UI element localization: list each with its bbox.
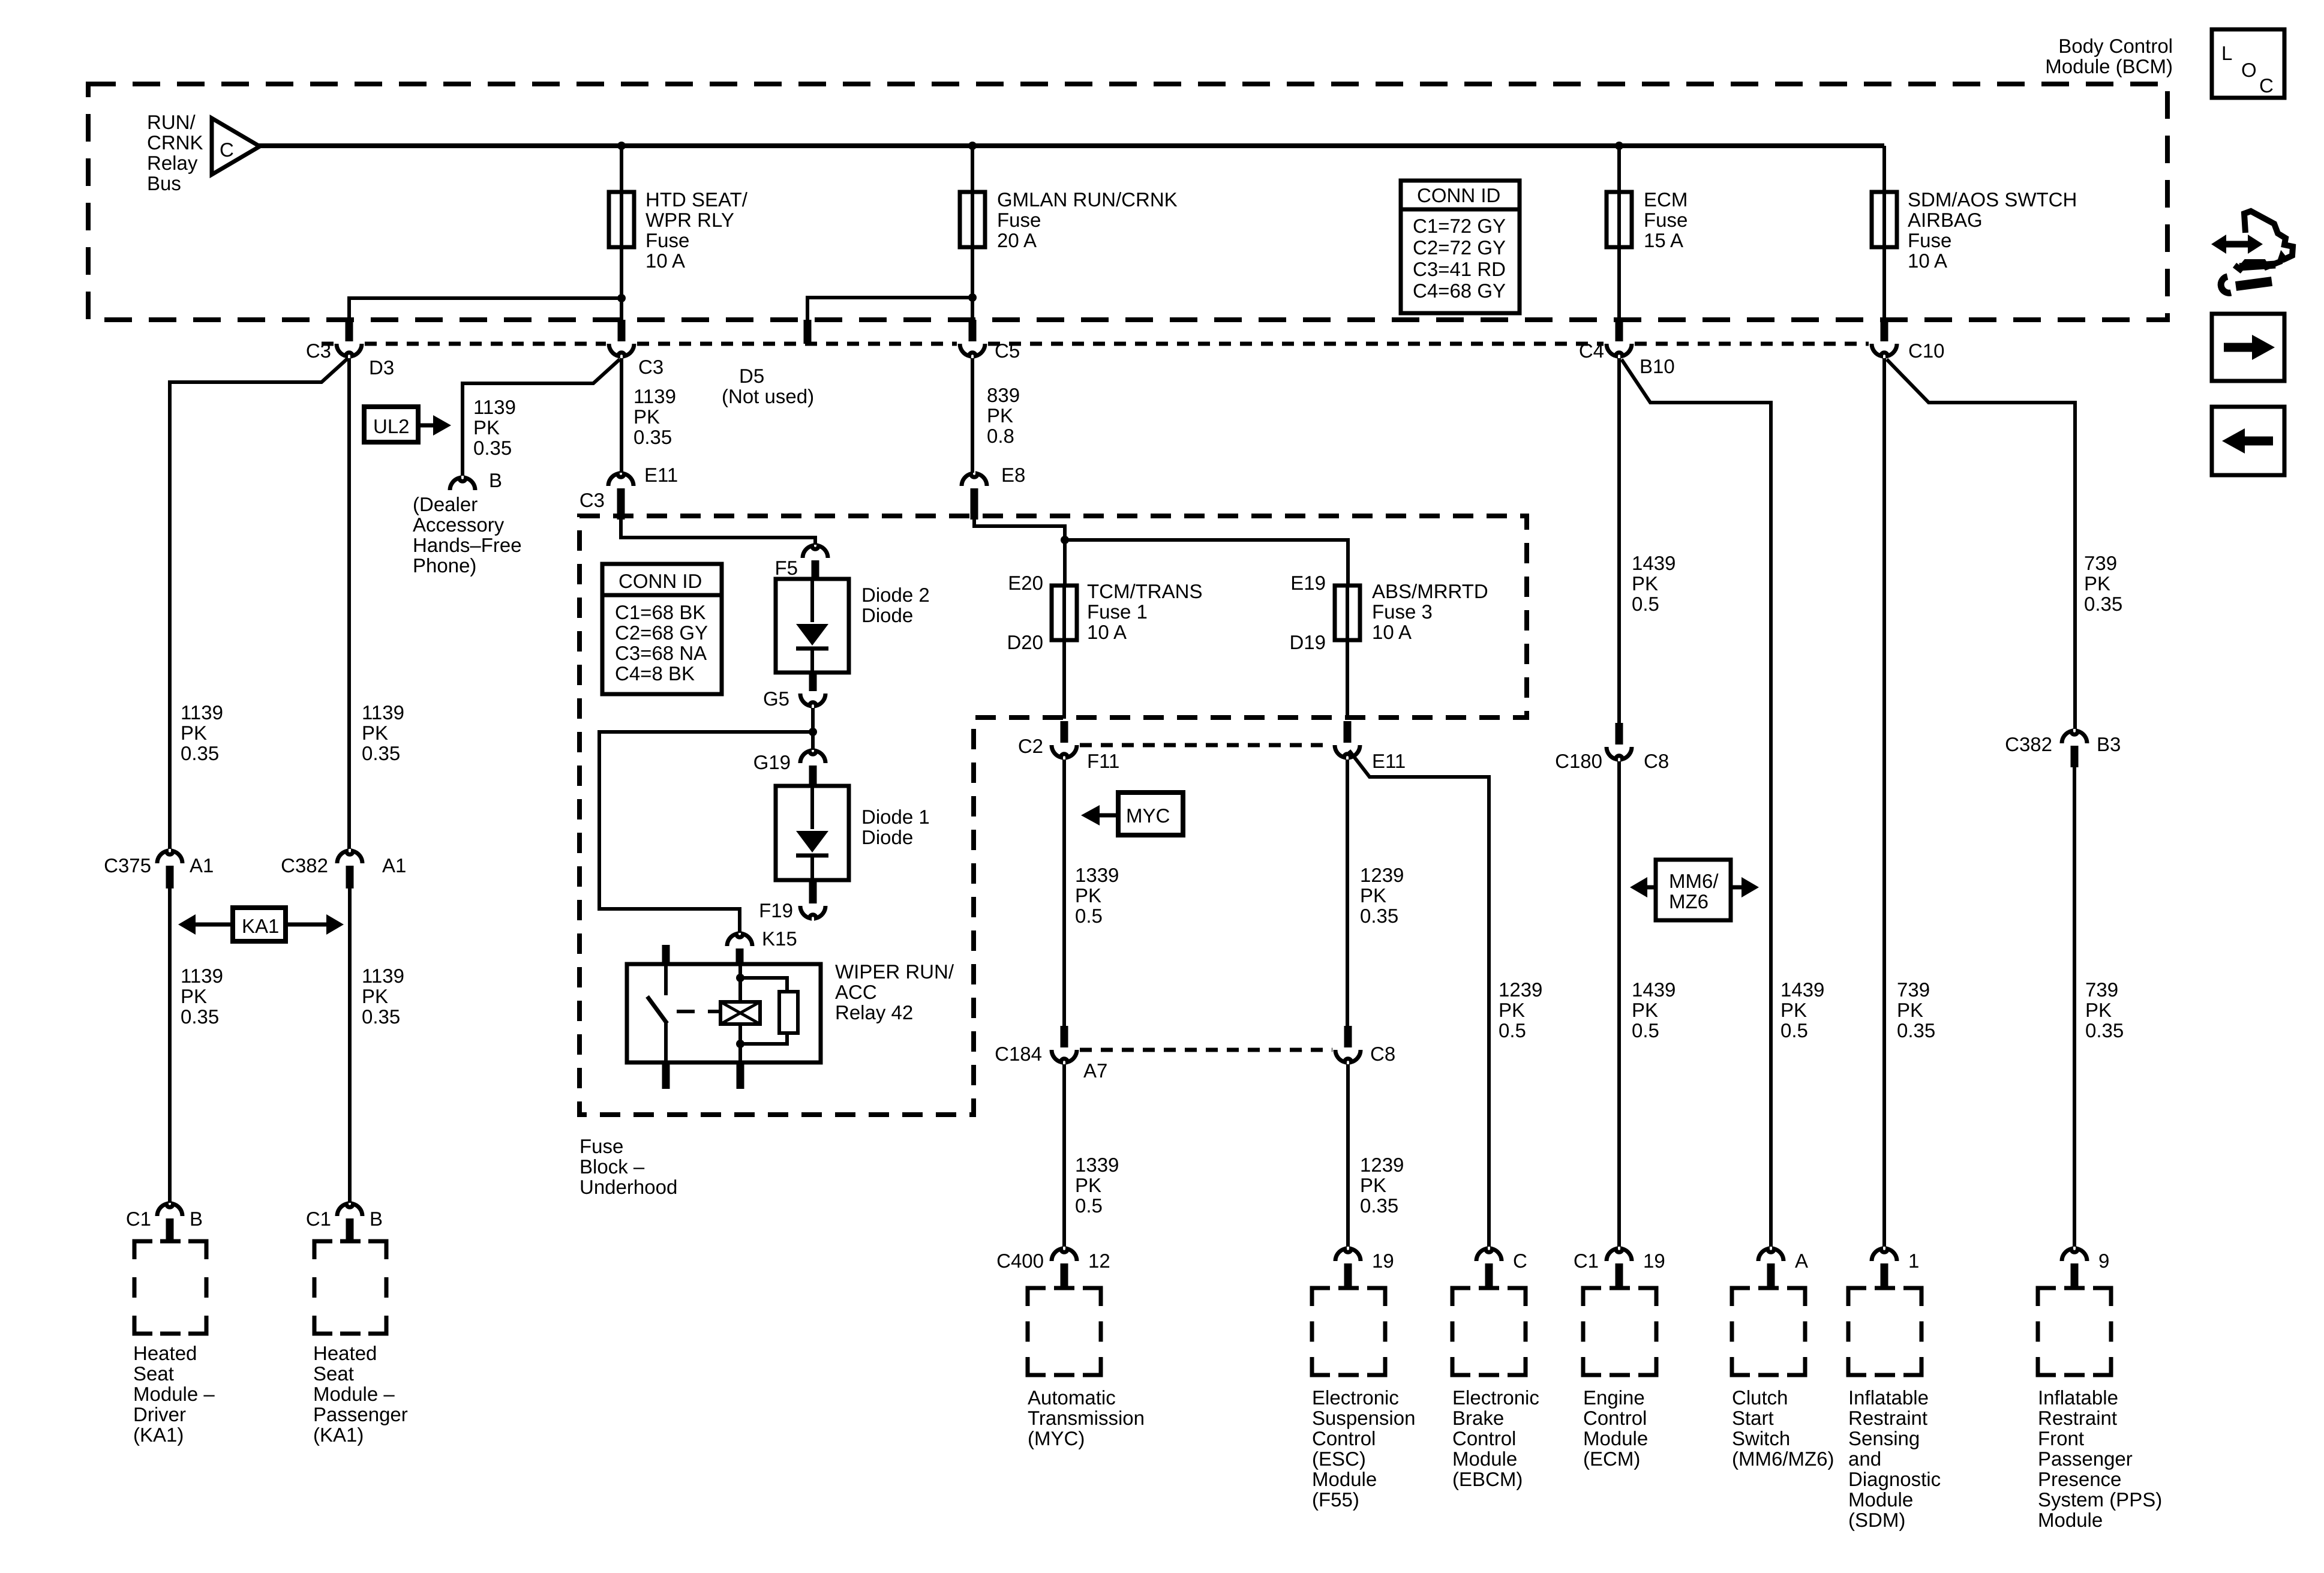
connector C180/C8 pin tick bbox=[1616, 723, 1623, 745]
svg-text:C2=72 GY: C2=72 GY bbox=[1413, 236, 1506, 259]
connector C2/F11 pin tick bbox=[1061, 721, 1068, 743]
label Automatic Transmission bbox=[1028, 1386, 1145, 1449]
label circuit 1139 PK 0.35 (UL2 branch) bbox=[473, 396, 516, 459]
connector C375/A1 pin tick bbox=[166, 866, 174, 888]
relay switch pin stub bottom bbox=[662, 1062, 670, 1089]
svg-text:AIRBAG: AIRBAG bbox=[1908, 209, 1983, 231]
svg-text:Body Control: Body Control bbox=[2058, 35, 2173, 57]
wire coil bottom junction bbox=[738, 1024, 742, 1062]
wire C375/A1 to heated seat driver bbox=[168, 881, 172, 1203]
label ECM Fuse 15 A bbox=[1644, 188, 1688, 251]
connector G19 pin tick bbox=[809, 766, 817, 787]
junction node on bus at ECM fuse bbox=[1615, 142, 1623, 150]
svg-text:WPR RLY: WPR RLY bbox=[645, 209, 734, 231]
label GMLAN RUN/CRNK Fuse 20 A bbox=[997, 188, 1178, 251]
svg-text:B10: B10 bbox=[1640, 355, 1675, 377]
svg-text:C8: C8 bbox=[1644, 750, 1669, 772]
svg-text:1139: 1139 bbox=[633, 385, 676, 407]
svg-text:C3=41 RD: C3=41 RD bbox=[1413, 258, 1506, 280]
svg-text:0.35: 0.35 bbox=[633, 426, 672, 448]
svg-text:(ESC): (ESC) bbox=[1312, 1448, 1366, 1470]
connector K15 socket bbox=[727, 934, 752, 946]
svg-text:PK: PK bbox=[362, 722, 388, 744]
svg-text:739: 739 bbox=[2085, 978, 2118, 1001]
svg-text:KA1: KA1 bbox=[242, 915, 279, 937]
connector C382/B3 pin tick bbox=[2071, 746, 2079, 767]
svg-text:Module: Module bbox=[2038, 1509, 2103, 1531]
svg-text:Driver: Driver bbox=[133, 1403, 186, 1425]
label C8 (ESC) bbox=[1370, 1043, 1395, 1065]
svg-text:TCM/TRANS: TCM/TRANS bbox=[1087, 580, 1203, 602]
connector interface dotted line (C3/D5/C5/C4/C10 row) bbox=[322, 342, 1869, 346]
svg-text:C8: C8 bbox=[1370, 1043, 1395, 1065]
diode box Diode 1 bbox=[776, 786, 849, 880]
svg-text:0.35: 0.35 bbox=[362, 1005, 400, 1028]
svg-text:Suspension: Suspension bbox=[1312, 1407, 1415, 1429]
svg-text:CONN ID: CONN ID bbox=[1417, 184, 1500, 206]
svg-text:0.5: 0.5 bbox=[1780, 1019, 1808, 1041]
wire ECM fuse to connector C4 bbox=[1617, 247, 1621, 322]
svg-text:Fuse: Fuse bbox=[1908, 229, 1951, 251]
svg-text:D20: D20 bbox=[1007, 631, 1043, 653]
connector G5 socket bbox=[800, 694, 825, 706]
LOC legend box bbox=[2212, 29, 2284, 98]
svg-text:C: C bbox=[2259, 74, 2274, 97]
svg-text:1239: 1239 bbox=[1499, 978, 1542, 1001]
svg-text:Fuse: Fuse bbox=[645, 229, 689, 251]
module box ESC module bbox=[1312, 1288, 1385, 1375]
wire C10 to SDM bbox=[1882, 358, 1886, 1247]
svg-text:E8: E8 bbox=[1001, 464, 1025, 486]
wire bus to HTD SEAT fuse bbox=[620, 146, 623, 193]
svg-text:Clutch: Clutch bbox=[1732, 1386, 1788, 1409]
label EBCM bbox=[1452, 1386, 1539, 1490]
fuse ABS/MRRTD Fuse 3 10A bbox=[1335, 586, 1360, 640]
svg-text:Passenger: Passenger bbox=[313, 1403, 408, 1425]
wire C382/B3 to PPS module bbox=[2073, 761, 2076, 1247]
svg-text:Diagnostic: Diagnostic bbox=[1848, 1468, 1941, 1490]
svg-text:Fuse: Fuse bbox=[997, 209, 1041, 231]
svg-text:UL2: UL2 bbox=[373, 415, 410, 437]
svg-text:C4: C4 bbox=[1579, 340, 1604, 362]
label (Dealer Accessory Hands-Free Phone) bbox=[413, 493, 522, 577]
label A1 (passenger) bbox=[382, 854, 406, 876]
svg-text:SDM/AOS SWTCH: SDM/AOS SWTCH bbox=[1908, 188, 2077, 211]
wire C8 to ESC module bbox=[1346, 1064, 1350, 1247]
label circuit 839 PK 0.8 bbox=[987, 384, 1020, 447]
label circuit 1339 PK 0.5 (lower) bbox=[1075, 1154, 1119, 1217]
connector socket at EBCM bbox=[1476, 1249, 1502, 1261]
label ABS/MRRTD Fuse 3 10 A bbox=[1372, 580, 1488, 643]
label D20 bbox=[1007, 631, 1043, 653]
svg-text:PK: PK bbox=[1075, 1174, 1101, 1196]
connector C1/B driver socket bbox=[157, 1204, 182, 1216]
label E8 bbox=[1001, 464, 1025, 486]
harness MM6/MZ6 label box bbox=[1656, 860, 1731, 920]
label Fuse Block - Underhood bbox=[580, 1135, 677, 1198]
svg-text:Module: Module bbox=[1848, 1488, 1913, 1511]
svg-text:C2=68 GY: C2=68 GY bbox=[615, 622, 708, 644]
svg-text:System (PPS): System (PPS) bbox=[2038, 1488, 2162, 1511]
svg-text:0.5: 0.5 bbox=[1075, 1194, 1103, 1217]
junction node HTD branch bbox=[617, 294, 626, 302]
wire C4 to C180 bbox=[1617, 358, 1621, 729]
svg-text:ACC: ACC bbox=[835, 981, 877, 1003]
svg-text:C: C bbox=[1513, 1250, 1527, 1272]
label circuit 1139 PK 0.35 (C3-E11) bbox=[633, 385, 676, 448]
svg-text:C180: C180 bbox=[1555, 750, 1602, 772]
harness KA1 double arrow bbox=[178, 914, 344, 935]
connector pin tick at EBCM bbox=[1485, 1263, 1493, 1289]
label C400 bbox=[996, 1250, 1044, 1272]
label C382 (PPS) bbox=[2005, 733, 2052, 755]
svg-text:Presence: Presence bbox=[2038, 1468, 2121, 1490]
svg-text:CRNK: CRNK bbox=[147, 131, 203, 154]
label HTD SEAT/WPR RLY Fuse 10 A bbox=[645, 188, 748, 272]
svg-text:(KA1): (KA1) bbox=[133, 1424, 184, 1446]
label Body Control Module (BCM) bbox=[2045, 35, 2173, 77]
svg-text:Fuse 1: Fuse 1 bbox=[1087, 601, 1148, 623]
svg-text:0.35: 0.35 bbox=[1360, 1194, 1398, 1217]
UL2 arrow bbox=[417, 415, 451, 436]
svg-text:E20: E20 bbox=[1008, 572, 1043, 594]
svg-text:C: C bbox=[220, 139, 234, 161]
wire ABS fuse to E11 bbox=[1346, 640, 1349, 719]
relay switch pin stub top bbox=[662, 945, 670, 966]
connector C382/A1 socket bbox=[337, 851, 362, 863]
label circuit 1139 PK 0.35 (passenger lower) bbox=[362, 965, 404, 1028]
svg-text:0.35: 0.35 bbox=[181, 1005, 219, 1028]
svg-text:MM6/: MM6/ bbox=[1669, 870, 1719, 892]
svg-text:C1: C1 bbox=[306, 1208, 331, 1230]
label pin 1 (SDM) bbox=[1908, 1250, 1919, 1272]
bus source triangle C bbox=[212, 118, 260, 175]
wire TCM fuse to C2/F11 bbox=[1062, 640, 1066, 719]
svg-text:Heated: Heated bbox=[133, 1342, 197, 1364]
connector C1/B driver pin tick bbox=[166, 1218, 174, 1242]
label F5 bbox=[774, 557, 798, 579]
label TCM/TRANS Fuse 1 10 A bbox=[1087, 580, 1203, 643]
label B3 bbox=[2097, 733, 2121, 755]
svg-text:Passenger: Passenger bbox=[2038, 1448, 2133, 1470]
svg-text:20 A: 20 A bbox=[997, 229, 1037, 251]
svg-text:(MYC): (MYC) bbox=[1028, 1427, 1085, 1449]
module box PPS module bbox=[2038, 1288, 2111, 1375]
connector C382/B3 socket bbox=[2062, 731, 2087, 743]
connector C5 socket bbox=[960, 344, 985, 356]
label circuit 739 PK 0.35 (PPS lower) bbox=[2085, 978, 2124, 1041]
wire HTD SEAT fuse to connector C3 bbox=[620, 247, 623, 322]
svg-text:15 A: 15 A bbox=[1644, 229, 1683, 251]
svg-text:C4=68 GY: C4=68 GY bbox=[1413, 280, 1506, 302]
connector C184/A7 pin tick bbox=[1061, 1026, 1068, 1047]
svg-text:F11: F11 bbox=[1087, 750, 1119, 772]
label C1 bbox=[1574, 1250, 1599, 1272]
label circuit 1439 PK 0.5 (upper) bbox=[1632, 552, 1676, 615]
label C10 bbox=[1908, 340, 1945, 362]
svg-text:L: L bbox=[2221, 42, 2232, 64]
label Heated Seat Module - Driver (KA1) bbox=[133, 1342, 215, 1446]
label B10 bbox=[1640, 355, 1675, 377]
svg-text:(EBCM): (EBCM) bbox=[1452, 1468, 1523, 1490]
svg-text:9: 9 bbox=[2098, 1250, 2109, 1272]
svg-text:1439: 1439 bbox=[1632, 552, 1676, 574]
label circuit 1239 PK 0.5 (EBCM) bbox=[1499, 978, 1542, 1041]
relay coil pin stub bottom bbox=[737, 1062, 744, 1089]
wire E8 to underhood fuses bbox=[974, 518, 1065, 586]
svg-text:PK: PK bbox=[1360, 884, 1386, 906]
connector C1/B passenger pin tick bbox=[346, 1218, 354, 1242]
svg-text:Relay: Relay bbox=[147, 152, 198, 174]
svg-text:F5: F5 bbox=[774, 557, 798, 579]
label F11 bbox=[1087, 750, 1119, 772]
svg-text:MZ6: MZ6 bbox=[1669, 890, 1709, 912]
connector C184/A7 socket bbox=[1052, 1050, 1077, 1062]
svg-text:Sensing: Sensing bbox=[1848, 1427, 1920, 1449]
svg-text:C5: C5 bbox=[995, 340, 1020, 362]
svg-text:1139: 1139 bbox=[181, 701, 223, 724]
junction node relay branch bbox=[809, 728, 817, 736]
svg-text:10 A: 10 A bbox=[645, 250, 685, 272]
connector F5 socket bbox=[803, 546, 828, 558]
label ECM bbox=[1583, 1386, 1648, 1470]
svg-text:C10: C10 bbox=[1908, 340, 1945, 362]
label SDM/AOS SWTCH AIRBAG Fuse 10 A bbox=[1908, 188, 2077, 272]
svg-text:PK: PK bbox=[633, 406, 660, 428]
connector E8 socket bbox=[962, 474, 987, 486]
connector C5 pin tick bbox=[969, 320, 977, 341]
wire C4 branch to clutch start switch bbox=[1622, 359, 1771, 1247]
svg-text:0.5: 0.5 bbox=[1632, 593, 1659, 615]
svg-text:Control: Control bbox=[1452, 1427, 1516, 1449]
svg-text:PK: PK bbox=[2085, 999, 2112, 1021]
CONN ID table (fuse block connectors) bbox=[602, 564, 722, 694]
svg-text:Relay 42: Relay 42 bbox=[835, 1001, 913, 1023]
wire C3/D3 to driver seat column bbox=[170, 359, 347, 849]
junction node on bus at HTD SEAT fuse bbox=[617, 142, 626, 150]
wire branch to D5 bbox=[807, 298, 972, 322]
label pin 19 (ECM) bbox=[1643, 1250, 1665, 1272]
junction node coil bottom bbox=[736, 1040, 744, 1048]
svg-text:PK: PK bbox=[2084, 572, 2110, 595]
connector pin tick at ESC module bbox=[1344, 1263, 1352, 1289]
connector C3 (HTD SEAT) pin tick bbox=[618, 320, 626, 341]
label pin 19 (ESC module) bbox=[1372, 1250, 1394, 1272]
wire bus to SDM/AOS fuse bbox=[1882, 146, 1886, 193]
svg-text:Module: Module bbox=[1583, 1427, 1648, 1449]
connector socket at ECM bbox=[1607, 1249, 1632, 1261]
svg-text:PK: PK bbox=[362, 985, 388, 1007]
label A1 (driver) bbox=[190, 854, 214, 876]
UL2 label box bbox=[364, 407, 418, 442]
back-arrow navigation box bbox=[2212, 407, 2284, 475]
relay switch lower contact bbox=[664, 1023, 668, 1062]
connector E11 (EBCM row) pin tick bbox=[1344, 721, 1352, 743]
connector E11 (EBCM row) socket bbox=[1335, 745, 1360, 757]
connector C3/D3 pin tick bbox=[346, 320, 353, 341]
label A7 bbox=[1083, 1059, 1107, 1082]
connector G5 pin tick bbox=[809, 673, 817, 691]
wire E11 to C8 bbox=[1346, 760, 1349, 1032]
connector C4 pin tick bbox=[1616, 320, 1623, 341]
svg-text:Diode: Diode bbox=[861, 604, 913, 626]
svg-text:B: B bbox=[370, 1208, 383, 1230]
label circuit 1139 PK 0.35 (passenger upper) bbox=[362, 701, 404, 764]
relay switch blade bbox=[647, 996, 667, 1023]
svg-text:10 A: 10 A bbox=[1372, 621, 1412, 643]
svg-text:1139: 1139 bbox=[181, 965, 223, 987]
svg-text:WIPER RUN/: WIPER RUN/ bbox=[835, 960, 954, 983]
connector C3/E11 pin tick bbox=[617, 488, 625, 520]
svg-text:0.35: 0.35 bbox=[181, 742, 219, 764]
connector D5 pin tick (not used) bbox=[804, 320, 812, 344]
svg-text:B: B bbox=[489, 469, 502, 491]
svg-text:Fuse: Fuse bbox=[1644, 209, 1688, 231]
svg-text:0.35: 0.35 bbox=[362, 742, 400, 764]
svg-text:PK: PK bbox=[1075, 884, 1101, 906]
svg-text:F19: F19 bbox=[759, 899, 793, 921]
svg-text:D19: D19 bbox=[1289, 631, 1326, 653]
label C1 (driver) bbox=[126, 1208, 151, 1230]
svg-text:0.35: 0.35 bbox=[1360, 905, 1398, 927]
svg-text:Control: Control bbox=[1583, 1407, 1647, 1429]
harness MM6/MZ6 double arrow bbox=[1630, 877, 1759, 897]
fuse ECM 15A bbox=[1607, 192, 1632, 247]
CONN ID table (BCM connectors) bbox=[1401, 181, 1520, 313]
svg-text:C3=68 NA: C3=68 NA bbox=[615, 642, 707, 664]
label C1 (passenger) bbox=[306, 1208, 331, 1230]
svg-text:PK: PK bbox=[1897, 999, 1923, 1021]
connector C382/A1 pin tick bbox=[346, 866, 354, 888]
label circuit 1439 PK 0.5 (clutch) bbox=[1780, 978, 1824, 1041]
label circuit 739 PK 0.35 (SDM) bbox=[1897, 978, 1935, 1041]
svg-text:1139: 1139 bbox=[473, 396, 516, 418]
wire resistor bottom to junction bbox=[740, 1033, 787, 1044]
label B (passenger) bbox=[370, 1208, 383, 1230]
svg-text:Electronic: Electronic bbox=[1312, 1386, 1399, 1409]
relay coil (box with X) bbox=[720, 1002, 760, 1024]
svg-text:Heated: Heated bbox=[313, 1342, 377, 1364]
svg-text:C382: C382 bbox=[281, 854, 328, 876]
label (Not used) bbox=[722, 385, 814, 407]
connector pin tick at PPS module bbox=[2071, 1263, 2079, 1289]
svg-text:Module –: Module – bbox=[133, 1383, 215, 1405]
label circuit 1139 PK 0.35 (driver upper) bbox=[181, 701, 223, 764]
connector C8 (ESC) pin tick bbox=[1344, 1026, 1352, 1047]
svg-text:Underhood: Underhood bbox=[580, 1176, 677, 1198]
wire E11 branch to EBCM bbox=[1349, 751, 1489, 1247]
svg-text:(F55): (F55) bbox=[1312, 1488, 1359, 1511]
svg-text:839: 839 bbox=[987, 384, 1020, 406]
svg-text:A7: A7 bbox=[1083, 1059, 1107, 1082]
svg-text:10 A: 10 A bbox=[1087, 621, 1127, 643]
label Heated Seat Module - Passenger (KA1) bbox=[313, 1342, 408, 1446]
wire K15 to relay coil bbox=[738, 964, 742, 1002]
svg-text:C3: C3 bbox=[580, 489, 605, 511]
svg-text:Restraint: Restraint bbox=[1848, 1407, 1927, 1429]
svg-text:Module (BCM): Module (BCM) bbox=[2045, 55, 2173, 77]
svg-text:G5: G5 bbox=[763, 688, 789, 710]
label C3 (E11 row) bbox=[580, 489, 605, 511]
svg-text:C382: C382 bbox=[2005, 733, 2052, 755]
connector F5 pin tick bbox=[812, 560, 819, 580]
connector pin tick at SDM bbox=[1881, 1263, 1888, 1289]
svg-text:C3: C3 bbox=[638, 356, 663, 378]
svg-text:GMLAN RUN/CRNK: GMLAN RUN/CRNK bbox=[997, 188, 1178, 211]
svg-text:1439: 1439 bbox=[1632, 978, 1676, 1001]
label E19 bbox=[1290, 572, 1326, 594]
svg-text:Start: Start bbox=[1732, 1407, 1774, 1429]
label Diode 2 bbox=[861, 584, 930, 626]
svg-text:1239: 1239 bbox=[1360, 1154, 1404, 1176]
svg-text:B3: B3 bbox=[2097, 733, 2121, 755]
relay box WIPER RUN/ACC Relay 42 bbox=[627, 964, 821, 1062]
svg-text:Module –: Module – bbox=[313, 1383, 395, 1405]
svg-text:PK: PK bbox=[1360, 1174, 1386, 1196]
connector C180/C8 socket bbox=[1607, 747, 1632, 759]
svg-text:A1: A1 bbox=[190, 854, 214, 876]
label C3 (HTD SEAT column) bbox=[638, 356, 663, 378]
svg-text:C1: C1 bbox=[1574, 1250, 1599, 1272]
svg-text:19: 19 bbox=[1643, 1250, 1665, 1272]
junction node on bus at GMLAN fuse bbox=[968, 142, 977, 150]
svg-text:CONN ID: CONN ID bbox=[618, 570, 702, 592]
label C3 (left of D3) bbox=[306, 340, 331, 362]
svg-text:PK: PK bbox=[1499, 999, 1525, 1021]
label G5 bbox=[763, 688, 789, 710]
module box EBCM bbox=[1452, 1288, 1526, 1375]
svg-text:Diode 1: Diode 1 bbox=[861, 806, 930, 828]
svg-text:1439: 1439 bbox=[1780, 978, 1824, 1001]
connector C4 socket bbox=[1607, 344, 1632, 356]
svg-text:D5: D5 bbox=[739, 365, 764, 387]
junction node coil top bbox=[736, 974, 744, 982]
svg-text:Transmission: Transmission bbox=[1028, 1407, 1145, 1429]
svg-text:C400: C400 bbox=[996, 1250, 1044, 1272]
label E20 bbox=[1008, 572, 1043, 594]
fuse HTD SEAT/WPR RLY 10A bbox=[609, 192, 634, 247]
wire SDM fuse to connector C10 bbox=[1882, 247, 1886, 322]
diode symbol Diode 1 bbox=[796, 786, 828, 880]
wire branch to C3/D3 bbox=[349, 298, 621, 322]
label SDM bbox=[1848, 1386, 1941, 1531]
svg-text:C375: C375 bbox=[104, 854, 151, 876]
svg-text:1139: 1139 bbox=[362, 701, 404, 724]
label pin 12 (Automatic Transmission) bbox=[1088, 1250, 1110, 1272]
svg-text:O: O bbox=[2241, 59, 2257, 81]
svg-text:Restraint: Restraint bbox=[2038, 1407, 2117, 1429]
label pin C (EBCM) bbox=[1513, 1250, 1527, 1272]
connector socket at SDM bbox=[1872, 1249, 1897, 1261]
diode symbol Diode 2 bbox=[796, 579, 828, 673]
label WIPER RUN/ACC Relay 42 bbox=[835, 960, 954, 1023]
wire C3/D3 down to C382/A1 bbox=[347, 358, 351, 849]
svg-text:739: 739 bbox=[2084, 552, 2117, 574]
svg-text:C1=68 BK: C1=68 BK bbox=[615, 601, 705, 623]
svg-text:PK: PK bbox=[181, 722, 207, 744]
svg-text:PK: PK bbox=[1632, 572, 1658, 595]
svg-text:Seat: Seat bbox=[133, 1362, 174, 1385]
connector C375/A1 socket bbox=[157, 851, 182, 863]
svg-text:Control: Control bbox=[1312, 1427, 1376, 1449]
label D19 bbox=[1289, 631, 1326, 653]
svg-text:19: 19 bbox=[1372, 1250, 1394, 1272]
Fuse Block - Underhood dashed boundary bbox=[580, 516, 1527, 1115]
label E11 (fuse block) bbox=[644, 464, 678, 486]
svg-text:12: 12 bbox=[1088, 1250, 1110, 1272]
wire C184 to automatic transmission bbox=[1062, 1064, 1066, 1247]
svg-text:B: B bbox=[190, 1208, 203, 1230]
